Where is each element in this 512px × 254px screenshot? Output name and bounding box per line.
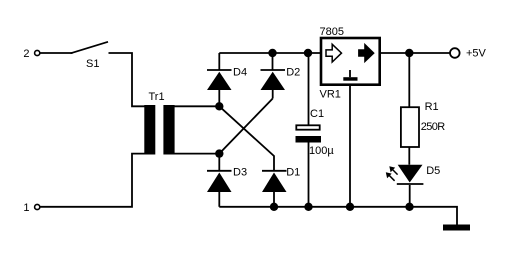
svg-text:R1: R1 [425,101,439,113]
svg-text:250R: 250R [421,121,446,133]
svg-text:Tr1: Tr1 [149,91,165,103]
svg-text:D2: D2 [286,66,300,78]
svg-text:VR1: VR1 [320,89,341,101]
svg-text:S1: S1 [86,58,99,70]
svg-text:D1: D1 [286,166,300,178]
svg-text:D5: D5 [426,165,440,177]
svg-text:+5V: +5V [466,48,487,60]
svg-text:7805: 7805 [320,26,344,38]
svg-text:1: 1 [23,202,29,214]
svg-text:D3: D3 [233,166,247,178]
svg-text:C1: C1 [310,108,324,120]
svg-text:2: 2 [23,48,29,60]
svg-text:100µ: 100µ [309,145,334,157]
svg-text:D4: D4 [233,66,247,78]
